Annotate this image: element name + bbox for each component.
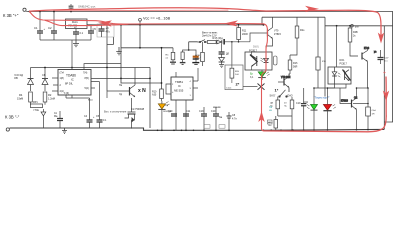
svg-text:С2: С2	[48, 26, 52, 30]
svg-text:RР1: RР1	[33, 101, 38, 104]
svg-text:РС817: РС817	[340, 62, 348, 65]
node input plus terminal	[23, 8, 26, 11]
resistor capsule right of opto U1	[274, 56, 278, 65]
capacitor C15	[227, 112, 238, 130]
ground mid left	[116, 47, 122, 55]
wire right inner horizontal	[325, 25, 393, 27]
wire right column vertical	[383, 26, 385, 130]
capacitor C2	[48, 12, 57, 41]
resistor R13 pair left	[270, 97, 280, 117]
svg-text:А30: А30	[152, 94, 157, 97]
svg-text:КТ-З: КТ-З	[364, 47, 370, 50]
wire inner box right edge	[324, 17, 326, 96]
wire ground bus	[10, 128, 385, 130]
svg-text:2*: 2*	[236, 82, 240, 87]
opto U1 transistor side	[252, 55, 257, 66]
red arrow down right side	[383, 91, 389, 102]
svg-text:Вкл. и отключение: Вкл. и отключение	[104, 110, 127, 114]
resistor R14 pair right	[278, 97, 294, 131]
svg-text:1*: 1*	[275, 87, 279, 92]
capacitor C16 green col	[296, 102, 301, 105]
capacitor C7	[84, 98, 95, 128]
svg-text:С11: С11	[186, 110, 191, 113]
wire timer pins	[166, 68, 198, 130]
capacitor C4	[88, 25, 96, 40]
red path on wire strand	[55, 9, 228, 12]
LED HL3 green right	[307, 88, 318, 130]
svg-text:SА'О': SА'О'	[270, 95, 277, 98]
svg-text:МЛа: МЛа	[195, 58, 200, 60]
svg-text:4.7н: 4.7н	[232, 117, 237, 120]
svg-text:С10: С10	[168, 110, 173, 113]
wire left mid rail	[31, 67, 151, 69]
node minus terminal	[6, 128, 9, 131]
svg-text:ЦВ: ЦВ	[270, 103, 274, 105]
mosfet VT2	[125, 98, 136, 129]
svg-text:С5: С5	[93, 27, 97, 31]
svg-text:5(2): 5(2)	[85, 87, 89, 90]
resistor R2	[43, 92, 55, 102]
svg-text:3 (6): 3 (6)	[64, 92, 69, 95]
svg-text:узл: узл	[355, 26, 359, 29]
optocoupler U2	[328, 59, 351, 84]
capacitor C17 left of green led	[301, 88, 309, 130]
svg-text:1.2кМ: 1.2кМ	[48, 96, 55, 100]
regulator DA1	[66, 19, 88, 29]
svg-text:х N: х N	[138, 88, 146, 94]
svg-text:R4: R4	[19, 93, 23, 97]
wire fan row left extension	[189, 42, 198, 50]
wire opto U2 feed	[336, 26, 338, 67]
switch SA1 fan	[198, 40, 208, 43]
resistor R11	[237, 25, 248, 42]
fan text block	[202, 31, 223, 41]
diode VD1	[14, 68, 34, 92]
red path bottom	[264, 77, 386, 132]
capacitor C19 tantalum	[192, 56, 204, 65]
svg-text:+: +	[383, 71, 386, 77]
LED HL1 orange	[158, 101, 171, 130]
capacitor C5 electrolytic	[97, 24, 114, 37]
svg-text:7(4): 7(4)	[83, 72, 87, 75]
resistor R1	[17, 92, 32, 102]
opto U2 led side	[334, 67, 336, 84]
LED HL4 red	[323, 88, 336, 130]
resistor R17 fan left	[195, 42, 204, 66]
svg-text:С10: С10	[211, 110, 216, 113]
cross junction on red path	[243, 84, 265, 90]
svg-text:IС: IС	[178, 84, 181, 88]
optocoupler U1	[245, 49, 272, 71]
wire top rail	[26, 12, 392, 123]
svg-text:С1: С1	[34, 26, 38, 30]
transistor VT4	[362, 47, 376, 88]
svg-text:(7)4: (7)4	[60, 72, 65, 75]
svg-text:КТ815: КТ815	[274, 33, 282, 36]
wire VT6 leads	[340, 87, 368, 130]
wire vert x161	[161, 48, 163, 89]
red path top strand	[30, 8, 382, 41]
switch SA2	[270, 90, 293, 98]
svg-text:звуков: звуков	[213, 106, 221, 109]
capacitor C20	[378, 50, 390, 64]
wire caps bottom join	[40, 39, 91, 41]
capacitor C3	[73, 29, 84, 41]
svg-text:С1об: С1об	[226, 88, 232, 90]
wire vert x140	[139, 25, 141, 48]
svg-text:200R: 200R	[242, 33, 248, 36]
connector circle right	[351, 25, 360, 29]
red path descent mid	[262, 29, 268, 79]
label teal note	[269, 106, 273, 112]
opto U1 led side	[265, 52, 267, 70]
capacitor fan	[219, 52, 230, 58]
small box on bus mid	[268, 120, 273, 124]
svg-text:80об: 80об	[88, 100, 94, 102]
wire vert x107	[107, 25, 129, 91]
capacitor C21 box	[366, 87, 377, 129]
svg-text:+С: +С	[106, 26, 110, 30]
capacitor C6 left	[54, 111, 63, 128]
diode VD3 fan	[216, 40, 222, 44]
bracket sub circuit	[183, 50, 196, 56]
svg-text:SМВJ4С узл.: SМВJ4С узл.	[78, 4, 96, 8]
junction mark fan	[223, 39, 225, 45]
wire TDA pins	[52, 40, 151, 98]
svg-text:IС: IС	[71, 78, 74, 82]
svg-text:НОВ: НОВ	[195, 55, 200, 57]
resistor R48	[348, 26, 358, 56]
wire mid right join	[313, 84, 346, 89]
red arrow left vcc2	[224, 20, 238, 26]
IC DA4 timer 555	[171, 77, 193, 100]
svg-text:47u: 47u	[106, 29, 111, 33]
svg-text:уз: уз	[374, 51, 376, 54]
capacitor C13	[199, 107, 207, 130]
svg-text:R1б (0)д: R1б (0)д	[213, 36, 224, 40]
red arrow up mid	[258, 111, 264, 122]
capacitor C11	[183, 110, 191, 116]
potentiometer RP1	[31, 101, 46, 128]
wire jog x113	[107, 37, 113, 44]
svg-text:С04: С04	[304, 101, 309, 104]
svg-text:≈70к: ≈70к	[33, 108, 40, 112]
module box left of opto	[225, 41, 243, 90]
transistor VT3	[259, 17, 282, 52]
fuse FU1	[69, 4, 74, 12]
LED HL2 green	[250, 70, 270, 80]
resistor R30	[290, 17, 305, 55]
svg-text:15кМ: 15кМ	[17, 96, 23, 100]
red arrow left vcc1	[98, 20, 112, 26]
resistor R15 lower	[269, 116, 278, 130]
wire inner box top rail	[262, 17, 325, 25]
label bus jumper boxes	[204, 125, 225, 129]
svg-text:56R: 56R	[293, 65, 298, 68]
svg-text:1(8): 1(8)	[60, 77, 64, 80]
wire mid horizontal y47.8	[121, 47, 173, 49]
svg-text:КТ018: КТ018	[341, 100, 349, 103]
junction dots top rails	[29, 11, 351, 84]
junction dots bus	[157, 129, 369, 131]
ground symbol regulator	[73, 40, 79, 47]
junction diode top	[44, 67, 46, 69]
svg-text:РС817: РС817	[249, 49, 257, 53]
wire vcc rail	[87, 24, 264, 26]
svg-text:1Н: 1Н	[372, 113, 375, 115]
ground below bus left	[62, 128, 67, 134]
svg-text:С1З: С1З	[296, 102, 301, 105]
red path vcc strand	[128, 24, 267, 30]
svg-text:R2: R2	[48, 93, 52, 97]
svg-text:50(б): 50(б)	[253, 46, 259, 49]
transistor VT6 bottom right	[341, 97, 369, 110]
resistor R12	[288, 55, 298, 74]
resistor R9	[152, 89, 163, 101]
svg-text:Vсс == +6...16В: Vсс == +6...16В	[143, 17, 171, 21]
svg-text:R2о: R2о	[300, 29, 305, 32]
wire fan row	[222, 33, 259, 52]
resistor R19 mid col	[166, 48, 177, 64]
red arrow right top	[305, 6, 319, 12]
zener VD5 column	[316, 17, 327, 88]
capacitor C8	[96, 82, 107, 128]
svg-text:С8: С8	[42, 73, 46, 77]
node Vcc	[139, 17, 171, 25]
capacitor C18 bracket left	[180, 52, 186, 64]
svg-text:К 3В "-": К 3В "-"	[5, 115, 20, 120]
svg-text:NЕ 555: NЕ 555	[174, 89, 184, 93]
resistor R16 fan	[207, 41, 216, 44]
svg-text:Сd 75РА08: Сd 75РА08	[131, 107, 145, 111]
svg-text:8Р DIL: 8Р DIL	[65, 82, 73, 86]
wire vert x150 down	[149, 68, 151, 129]
svg-text:ОВ: ОВ	[14, 76, 18, 80]
red arrow down right	[378, 33, 384, 44]
transistor VT1 xN	[119, 68, 135, 98]
diode VD4 fan	[219, 58, 225, 62]
red path node swoosh	[30, 12, 268, 131]
diode VD2	[42, 68, 48, 92]
opto U2 transistor side	[345, 70, 350, 81]
capacitor C10	[168, 110, 177, 117]
svg-text:0.1: 0.1	[80, 31, 84, 35]
capacitor C14	[211, 107, 223, 130]
IC DA2 TDA amplifier	[58, 70, 91, 96]
svg-text:К 3В "+": К 3В "+"	[3, 13, 19, 18]
svg-text:8(5): 8(5)	[85, 77, 89, 80]
transistor VT5 mid	[278, 74, 291, 92]
resistor R26 in module	[230, 68, 234, 78]
wire vert x121	[121, 25, 162, 83]
ground fan	[219, 62, 224, 68]
capacitor C1	[34, 12, 46, 41]
svg-text:С1З: С1З	[199, 110, 204, 113]
